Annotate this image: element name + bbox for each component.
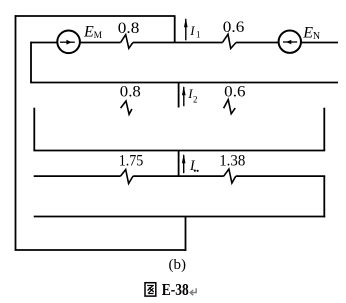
current arrow I3 (up) <box>182 154 186 173</box>
resistor 0.8 (top row) squiggle <box>121 35 133 49</box>
svg-text:0.6: 0.6 <box>223 19 245 36</box>
source E_N internal arrow (points left) <box>283 40 297 44</box>
svg-text:1.38: 1.38 <box>219 153 245 170</box>
resistor 0.8 (row 2) squiggle <box>121 101 132 114</box>
wire: row3 right vertical down <box>323 176 325 217</box>
wire: row3 right segment <box>236 175 325 177</box>
label I2 <box>187 86 197 104</box>
wire: row1 segment to E_N <box>236 42 279 44</box>
wire: outer border top horizontal <box>15 15 176 17</box>
current arrow I1 (up) <box>184 18 188 41</box>
wire: bottom right vertical x=185.5 <box>185 217 187 251</box>
wire: row1 left down vertical <box>30 42 32 83</box>
label 0.6 (row 2) <box>224 84 245 101</box>
svg-text:1: 1 <box>196 30 201 40</box>
wire: stub from U bottom down to row3 <box>178 151 180 177</box>
caption: return mark (gray) <box>190 288 196 295</box>
source E_N circle <box>279 31 301 53</box>
caption: character 图 (boxed figure glyph) <box>145 283 156 296</box>
svg-text:2: 2 <box>193 94 198 104</box>
svg-text:E-38: E-38 <box>162 280 189 299</box>
wire: row3 middle segment <box>133 175 224 177</box>
caption: E-38 <box>162 280 189 299</box>
wire: row1 middle segment <box>133 42 223 44</box>
resistor 1.38 squiggle <box>224 169 236 183</box>
label I3 (illegible subscript dots) <box>189 158 199 174</box>
label I1 <box>189 23 200 40</box>
wire: row1 segment E_M to R0.8 <box>80 42 121 44</box>
wire: row1 right segment <box>301 42 338 44</box>
svg-text:E: E <box>302 25 313 42</box>
svg-text:0.8: 0.8 <box>120 84 141 101</box>
wire: outer border left vertical <box>15 15 17 250</box>
svg-text:0.8: 0.8 <box>118 20 140 37</box>
wire: middle stub from second line down to row2 <box>178 83 180 108</box>
label 0.8 (row 2) <box>120 84 141 101</box>
resistor 0.6 (row 2) squiggle <box>224 100 236 114</box>
source E_M internal arrow (points right) <box>60 40 75 45</box>
svg-text:N: N <box>313 31 320 42</box>
wire: lower horizontal return <box>34 216 326 218</box>
svg-text:1.75: 1.75 <box>119 152 144 169</box>
wire: row1 left segment <box>31 42 57 44</box>
label (b) <box>169 257 187 273</box>
wire: outer border bottom horizontal <box>15 249 187 251</box>
svg-text:M: M <box>94 31 103 41</box>
wire: row3 left segment <box>34 175 121 177</box>
current arrow I2 (up) <box>182 86 186 106</box>
resistor 0.6 (top row) squiggle <box>223 34 237 48</box>
label E_N <box>302 25 320 42</box>
resistor 1.75 squiggle <box>120 170 133 184</box>
svg-text:I: I <box>189 23 195 38</box>
label 0.6 (top row) <box>223 19 245 36</box>
label 0.8 (top row) <box>118 20 140 37</box>
svg-text:0.6: 0.6 <box>224 84 245 101</box>
wire: U right vertical <box>323 108 325 151</box>
label 1.38 <box>219 153 245 170</box>
wire: U bottom horizontal <box>33 150 325 152</box>
wire: U left vertical <box>33 108 35 151</box>
svg-text:(b): (b) <box>169 257 187 273</box>
label E_M <box>83 24 103 41</box>
wire: second horizontal line <box>30 82 338 84</box>
label 1.75 <box>119 152 144 169</box>
wire: stub from top border down to row1 node <box>174 16 176 43</box>
svg-text:E: E <box>83 24 94 41</box>
source E_M circle <box>57 31 80 54</box>
